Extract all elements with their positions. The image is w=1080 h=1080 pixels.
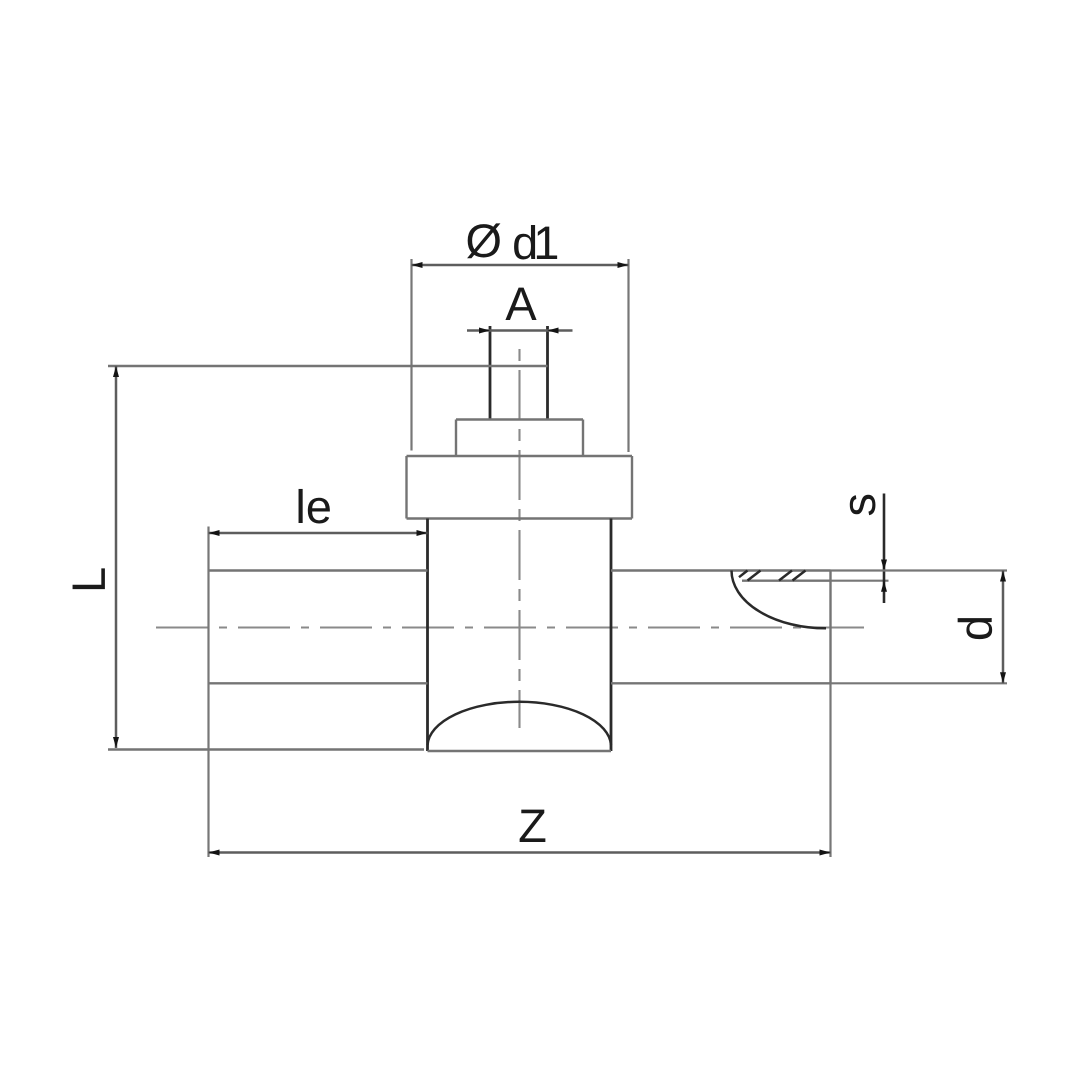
dimension A <box>467 288 573 334</box>
dimension Od1 <box>412 223 629 452</box>
dimension Z <box>209 683 831 857</box>
bonnet block <box>456 420 583 457</box>
dimension L <box>73 366 548 750</box>
dimension le <box>209 489 428 857</box>
hatching wall section <box>739 571 806 581</box>
vertical body <box>428 519 612 752</box>
centerline horizontal axis <box>156 626 866 628</box>
dimension d <box>831 571 1008 684</box>
body bottom edge <box>428 750 612 752</box>
body bottom dome arc <box>428 702 612 745</box>
left pipe <box>209 571 428 684</box>
dimension s <box>831 494 889 604</box>
flange <box>407 456 633 519</box>
centerline vertical axis <box>518 349 520 728</box>
socket bore arc <box>732 571 827 629</box>
pipe inner wall line <box>742 580 831 582</box>
right pipe <box>611 571 831 684</box>
top stub (spigot) outline <box>490 326 548 420</box>
